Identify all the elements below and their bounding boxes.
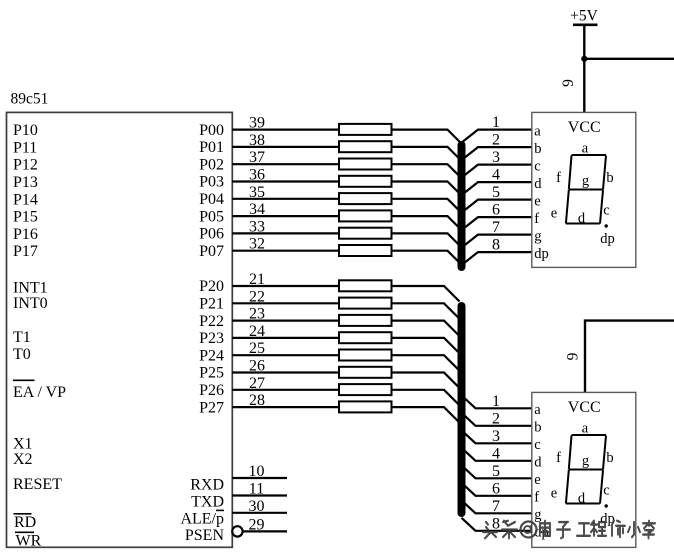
- svg-text:dp: dp: [534, 246, 549, 262]
- wire resistor R3 to bus 1: [392, 164, 462, 178]
- svg-text:a: a: [534, 402, 541, 418]
- DS1 segment c: [600, 190, 603, 224]
- wire bus 2 to DS2 pin 6: [462, 483, 532, 496]
- wire resistor R9 to bus 2: [392, 286, 460, 302]
- svg-text:a: a: [582, 421, 589, 437]
- svg-text:P04: P04: [199, 191, 224, 208]
- svg-text:+5V: +5V: [570, 8, 598, 25]
- svg-text:d: d: [578, 211, 586, 227]
- wire from right edge to DS2 VCC pin 9: [585, 321, 674, 393]
- svg-text:b: b: [606, 170, 613, 186]
- wire bus 1 to DS1 pin 4: [462, 182, 532, 195]
- svg-text:22: 22: [249, 288, 265, 305]
- DS2 decimal point dot: [605, 504, 608, 507]
- resistor R6: [339, 210, 392, 221]
- svg-text:25: 25: [249, 340, 265, 357]
- wire P07 from chip pin 32 to resistor R8: [232, 250, 341, 252]
- svg-text:7: 7: [492, 498, 500, 515]
- svg-text:3: 3: [492, 149, 500, 166]
- DS1 segment d: [566, 223, 600, 225]
- wire P06 from chip pin 33 to resistor R7: [232, 232, 341, 234]
- power +5V bar: [573, 23, 598, 26]
- svg-text:WR: WR: [16, 533, 42, 550]
- pin label RD (overlined): [14, 514, 37, 531]
- wire P25 from chip pin 26 to resistor R14: [232, 371, 341, 373]
- svg-text:35: 35: [249, 184, 265, 201]
- svg-text:P22: P22: [199, 313, 224, 330]
- resistor R12: [339, 332, 392, 343]
- resistor R7: [339, 228, 392, 239]
- DS2 segment e: [566, 470, 569, 504]
- resistor R4: [339, 176, 392, 187]
- svg-text:dp: dp: [600, 231, 615, 247]
- svg-text:e: e: [551, 206, 557, 222]
- svg-text:30: 30: [249, 498, 265, 515]
- wire bus 2 to DS2 pin 3: [462, 430, 532, 443]
- svg-text:INT0: INT0: [13, 295, 48, 312]
- svg-text:P10: P10: [13, 122, 38, 139]
- wire junction to right edge (to DS2 supply): [584, 58, 674, 60]
- svg-text:b: b: [534, 420, 541, 436]
- svg-text:c: c: [603, 483, 609, 499]
- wire P02 from chip pin 37 to resistor R3: [232, 163, 341, 165]
- svg-text:23: 23: [249, 306, 265, 323]
- svg-text:39: 39: [249, 115, 265, 132]
- svg-text:26: 26: [249, 358, 265, 375]
- svg-text:P07: P07: [199, 243, 224, 260]
- wire chip pin 10 stub: [232, 477, 287, 479]
- 7-segment display DS2 body: [532, 392, 636, 547]
- wire P00 from chip pin 39 to resistor R1: [232, 129, 341, 131]
- svg-text:34: 34: [249, 201, 265, 218]
- svg-text:P17: P17: [13, 243, 38, 260]
- resistor R3: [339, 159, 392, 170]
- svg-text:P15: P15: [13, 209, 38, 226]
- DS2 segment a: [572, 434, 607, 436]
- wire bus 1 to DS1 pin 2: [462, 147, 532, 160]
- svg-text:e: e: [534, 472, 540, 488]
- svg-text:g: g: [582, 453, 589, 469]
- PSEN inversion bubble: [232, 526, 242, 536]
- wire resistor R2 to bus 1: [392, 147, 462, 161]
- svg-text:1: 1: [492, 393, 500, 410]
- svg-text:g: g: [534, 228, 541, 244]
- svg-text:g: g: [582, 173, 589, 189]
- bus 1 (segment lines bundle to DS1): [458, 145, 466, 267]
- svg-text:P02: P02: [199, 156, 224, 173]
- svg-text:X1: X1: [13, 436, 33, 453]
- DS2 segment d: [566, 503, 600, 505]
- resistor R16: [339, 401, 392, 412]
- svg-text:33: 33: [249, 218, 265, 235]
- svg-text:P11: P11: [13, 139, 37, 156]
- wire P03 from chip pin 36 to resistor R4: [232, 180, 341, 182]
- resistor R5: [339, 193, 392, 204]
- svg-text:f: f: [556, 170, 561, 186]
- wire resistor R7 to bus 1: [392, 233, 462, 247]
- svg-text:5: 5: [492, 463, 500, 480]
- svg-text:c: c: [603, 203, 609, 219]
- wire P27 from chip pin 28 to resistor R16: [232, 406, 341, 408]
- svg-text:P27: P27: [199, 399, 224, 416]
- svg-text:6: 6: [492, 480, 500, 497]
- wire resistor R5 to bus 1: [392, 199, 462, 213]
- svg-text:P03: P03: [199, 174, 224, 191]
- svg-text:37: 37: [249, 149, 265, 166]
- svg-text:P12: P12: [13, 157, 38, 174]
- wire P22 from chip pin 23 to resistor R11: [232, 320, 341, 322]
- wire chip pin 30 stub: [232, 512, 287, 514]
- DS2 segment c: [600, 470, 603, 504]
- svg-text:RXD: RXD: [190, 477, 224, 494]
- DS2 segment b: [603, 436, 606, 470]
- DS1 segment b: [603, 156, 606, 190]
- watermark 头条@电子工程师小李: [483, 521, 655, 539]
- svg-text:28: 28: [249, 392, 265, 409]
- wire resistor R6 to bus 1: [392, 216, 462, 230]
- svg-text:8: 8: [492, 237, 500, 254]
- svg-text:P14: P14: [13, 191, 38, 208]
- svg-text:24: 24: [249, 323, 265, 340]
- DS1 segment e: [566, 190, 569, 224]
- resistor R1: [339, 124, 392, 135]
- svg-text:f: f: [534, 211, 539, 227]
- pin label WR (overlined): [15, 532, 42, 549]
- DS1 decimal point dot: [605, 224, 608, 227]
- wire bus 2 to DS2 pin 7: [462, 500, 532, 513]
- svg-text:d: d: [578, 491, 586, 507]
- wire bus 2 to DS2 pin 8: [462, 518, 532, 531]
- DS1 segment a: [572, 154, 607, 156]
- resistor R15: [339, 384, 392, 395]
- wire bus 2 to DS2 pin 5: [462, 465, 532, 478]
- svg-text:6: 6: [492, 202, 500, 219]
- svg-text:P05: P05: [199, 208, 224, 225]
- svg-text:P01: P01: [199, 139, 224, 156]
- svg-text:d: d: [534, 176, 542, 192]
- svg-text:e: e: [551, 486, 557, 502]
- svg-text:8: 8: [492, 515, 500, 532]
- pin label ALE/P (P overlined): [180, 510, 224, 527]
- svg-text:P24: P24: [199, 347, 224, 364]
- resistor R9: [339, 280, 392, 291]
- resistor R2: [339, 141, 392, 152]
- wire +5V to DS1 VCC pin 9: [583, 25, 585, 113]
- svg-text:9: 9: [560, 79, 577, 87]
- svg-text:RD: RD: [14, 514, 36, 531]
- 7-segment display DS1 body: [532, 112, 636, 267]
- wire bus 2 to DS2 pin 2: [462, 413, 532, 426]
- wire resistor R10 to bus 2: [392, 303, 460, 319]
- svg-text:P26: P26: [199, 382, 224, 399]
- resistor R8: [339, 245, 392, 256]
- junction node on +5V wire: [581, 56, 587, 62]
- wire resistor R12 to bus 2: [392, 338, 460, 354]
- svg-text:32: 32: [249, 236, 265, 253]
- svg-text:27: 27: [249, 375, 265, 392]
- wire P23 from chip pin 24 to resistor R12: [232, 337, 341, 339]
- svg-text:d: d: [534, 455, 542, 471]
- wire chip pin 29 stub: [243, 530, 287, 532]
- wire resistor R14 to bus 2: [392, 373, 460, 389]
- wire P26 from chip pin 27 to resistor R15: [232, 389, 341, 391]
- svg-text:f: f: [534, 490, 539, 506]
- wire bus 1 to DS1 pin 1: [462, 130, 532, 143]
- svg-text:PSEN: PSEN: [185, 527, 225, 544]
- wire resistor R16 to bus 2: [392, 407, 460, 423]
- svg-text:2: 2: [492, 132, 500, 149]
- svg-text:c: c: [534, 158, 540, 174]
- wire P21 from chip pin 22 to resistor R10: [232, 302, 341, 304]
- IC U1 89c51 body: [7, 112, 233, 547]
- svg-text:P20: P20: [199, 278, 224, 295]
- wire resistor R8 to bus 1: [392, 251, 462, 265]
- resistor R11: [339, 315, 392, 326]
- svg-text:f: f: [556, 450, 561, 466]
- svg-text:P06: P06: [199, 226, 224, 243]
- svg-text:T0: T0: [13, 346, 31, 363]
- svg-text:36: 36: [249, 167, 265, 184]
- wire bus 1 to DS1 pin 6: [462, 217, 532, 230]
- svg-text:P16: P16: [13, 226, 38, 243]
- resistor R14: [339, 367, 392, 378]
- svg-text:P23: P23: [199, 330, 224, 347]
- svg-text:P13: P13: [13, 174, 38, 191]
- resistor R10: [339, 298, 392, 309]
- svg-text:2: 2: [492, 410, 500, 427]
- wire bus 2 to DS2 pin 1: [462, 395, 532, 408]
- svg-text:e: e: [534, 193, 540, 209]
- resistor R13: [339, 350, 392, 361]
- svg-text:c: c: [534, 437, 540, 453]
- wire P05 from chip pin 34 to resistor R6: [232, 215, 341, 217]
- svg-text:a: a: [534, 123, 541, 139]
- svg-text:T1: T1: [13, 329, 31, 346]
- svg-text:10: 10: [249, 463, 265, 480]
- wire P01 from chip pin 38 to resistor R2: [232, 146, 341, 148]
- svg-text:89c51: 89c51: [11, 91, 49, 108]
- svg-text:RESET: RESET: [13, 476, 62, 493]
- wire bus 1 to DS1 pin 8: [462, 252, 532, 265]
- wire bus 1 to DS1 pin 3: [462, 165, 532, 178]
- bus 2 (segment lines bundle to DS2): [458, 306, 466, 513]
- wire resistor R15 to bus 2: [392, 390, 460, 406]
- wire bus 1 to DS1 pin 5: [462, 200, 532, 213]
- svg-text:4: 4: [492, 167, 500, 184]
- svg-text:9: 9: [565, 352, 582, 360]
- svg-text:X2: X2: [13, 451, 33, 468]
- svg-text:a: a: [582, 141, 589, 157]
- svg-text:b: b: [534, 141, 541, 157]
- svg-text:1: 1: [492, 114, 500, 131]
- DS2 segment g: [569, 469, 603, 471]
- svg-text:g: g: [534, 507, 541, 523]
- svg-text:38: 38: [249, 132, 265, 149]
- svg-text:3: 3: [492, 428, 500, 445]
- svg-text:VCC: VCC: [568, 119, 601, 136]
- DS1 segment g: [569, 189, 603, 191]
- svg-text:P00: P00: [199, 122, 224, 139]
- wire resistor R4 to bus 1: [392, 182, 462, 196]
- wire resistor R11 to bus 2: [392, 321, 460, 337]
- svg-text:b: b: [606, 450, 613, 466]
- svg-text:11: 11: [249, 481, 264, 498]
- svg-text:EA / VP: EA / VP: [13, 384, 66, 401]
- wire resistor R1 to bus 1: [392, 130, 462, 144]
- svg-text:7: 7: [492, 219, 500, 236]
- wire bus 1 to DS1 pin 7: [462, 235, 532, 248]
- svg-text:5: 5: [492, 184, 500, 201]
- svg-text:4: 4: [492, 445, 500, 462]
- svg-text:VCC: VCC: [568, 399, 601, 416]
- wire P20 from chip pin 21 to resistor R9: [232, 285, 341, 287]
- wire P04 from chip pin 35 to resistor R5: [232, 198, 341, 200]
- DS1 segment f: [569, 156, 572, 190]
- svg-text:ALE/p: ALE/p: [180, 511, 224, 528]
- svg-text:P25: P25: [199, 365, 224, 382]
- DS2 segment f: [569, 436, 572, 470]
- pin label EA/VP (EA overlined): [13, 380, 66, 401]
- svg-text:INT1: INT1: [13, 280, 48, 297]
- wire chip pin 11 stub: [232, 494, 287, 496]
- svg-text:29: 29: [249, 516, 265, 533]
- svg-text:P21: P21: [199, 296, 224, 313]
- wire P24 from chip pin 25 to resistor R13: [232, 354, 341, 356]
- svg-text:TXD: TXD: [191, 494, 224, 511]
- wire bus 2 to DS2 pin 4: [462, 448, 532, 461]
- svg-text:21: 21: [249, 271, 265, 288]
- wire resistor R13 to bus 2: [392, 355, 460, 371]
